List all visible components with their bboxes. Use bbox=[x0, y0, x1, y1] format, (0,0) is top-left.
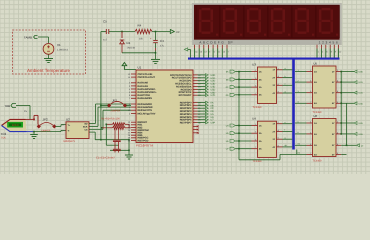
svg-text:d: d bbox=[285, 90, 286, 93]
display segment pins bbox=[195, 45, 230, 58]
svg-text:V1: V1 bbox=[57, 43, 61, 47]
svg-text:MCLR/Vpp/THV: MCLR/Vpp/THV bbox=[138, 112, 156, 115]
7-segment display frame bbox=[192, 3, 342, 45]
U6 output terminals bbox=[341, 122, 363, 136]
svg-text:C4: C4 bbox=[160, 39, 164, 43]
wire TC2 minus to U2 bbox=[34, 131, 61, 133]
microcontroller U1 PIC16F877A bbox=[136, 70, 193, 143]
wire V1 to ground bbox=[48, 55, 50, 59]
svg-text:C5: C5 bbox=[103, 20, 107, 24]
wire VDD to PIC bbox=[123, 69, 125, 71]
svg-text:1A: 1A bbox=[259, 71, 262, 74]
diode D1 bbox=[121, 32, 123, 39]
wire vertical net VP left bbox=[100, 32, 102, 140]
junction rail1 long vertical bbox=[100, 139, 102, 141]
IC U4 bbox=[258, 121, 277, 157]
bus horizontal bbox=[188, 58, 340, 60]
U3 input terminals bbox=[226, 70, 252, 97]
svg-text:RB7/PGD: RB7/PGD bbox=[138, 139, 149, 142]
svg-text:U7D: U7D bbox=[211, 94, 216, 97]
svg-text:SO: SO bbox=[84, 123, 87, 126]
svg-text:2A: 2A bbox=[259, 132, 262, 135]
U1 right pins RC bbox=[180, 101, 202, 124]
wire U2 GND to filter rail bbox=[89, 131, 95, 133]
thermocouple probe TC2 bbox=[2, 119, 27, 131]
U4 input terminals bbox=[226, 124, 252, 151]
svg-text:100.0: 100.0 bbox=[12, 124, 19, 127]
svg-text:U4D: U4D bbox=[359, 122, 364, 125]
svg-text:OSC2/CLKOUT: OSC2/CLKOUT bbox=[138, 76, 156, 79]
display digits bbox=[196, 6, 339, 38]
wire filter rail 2 bbox=[106, 144, 118, 146]
junction ground rail bbox=[155, 52, 157, 54]
wire resistor rows link bbox=[128, 124, 130, 128]
terminals RC nets bbox=[198, 101, 216, 125]
svg-text:3A: 3A bbox=[259, 86, 262, 89]
wire link under U4 bbox=[239, 159, 280, 161]
svg-text:4u7: 4u7 bbox=[103, 39, 108, 42]
vertical wire right B bbox=[346, 103, 348, 145]
wire JP1 right to PIC bbox=[127, 105, 132, 107]
svg-text:R1+R2+R3=100: R1+R2+R3=100 bbox=[101, 118, 120, 121]
IC U6 bbox=[313, 119, 337, 157]
svg-text:g: g bbox=[285, 137, 286, 140]
wire U6 pin4 right bbox=[341, 153, 346, 155]
wire VP input node bbox=[101, 31, 106, 33]
svg-text:RD7/PSP7: RD7/PSP7 bbox=[180, 122, 192, 125]
ground TC2 bbox=[33, 132, 35, 135]
display digit pins bbox=[317, 45, 342, 58]
resistor R4 bbox=[135, 29, 152, 33]
svg-text:123456: 123456 bbox=[319, 40, 340, 44]
svg-text:4A: 4A bbox=[259, 94, 262, 97]
svg-text:2A: 2A bbox=[314, 81, 317, 84]
svg-text:T-: T- bbox=[68, 130, 70, 133]
svg-text:CS: CS bbox=[84, 128, 88, 131]
junction R1 vertical B bbox=[106, 124, 108, 126]
svg-text:1N4148: 1N4148 bbox=[127, 47, 136, 50]
junction filter ground 2 bbox=[128, 150, 130, 152]
svg-text:U0P: U0P bbox=[211, 122, 216, 125]
ground below V1 bbox=[44, 59, 53, 63]
junction node D1 top bbox=[121, 31, 123, 33]
svg-text:SCK: SCK bbox=[83, 126, 88, 129]
svg-text:C1=C2=C3=4n7: C1=C2=C3=4n7 bbox=[96, 156, 115, 159]
svg-text:TC4469: TC4469 bbox=[253, 106, 263, 109]
wire vertical B bbox=[105, 124, 107, 145]
svg-text:VP: VP bbox=[176, 31, 180, 34]
U5 output terminals bbox=[341, 70, 363, 105]
svg-text:47u: 47u bbox=[160, 45, 165, 48]
vertical wire right of U5 bbox=[340, 72, 342, 134]
svg-text:THB: THB bbox=[4, 104, 10, 108]
svg-text:ABCDEFG: ABCDEFG bbox=[199, 40, 225, 44]
wire U6 pin3 terminal bbox=[341, 144, 356, 146]
svg-text:TC4469: TC4469 bbox=[313, 159, 323, 162]
wire R4 to VP terminal bbox=[152, 31, 170, 33]
display pin name strip bbox=[193, 40, 340, 45]
bus vertical bbox=[292, 58, 295, 150]
svg-text:4A: 4A bbox=[314, 153, 317, 156]
svg-text:1A: 1A bbox=[314, 122, 317, 125]
wire filter rail 1 bbox=[95, 139, 129, 141]
wire JP2 left bbox=[37, 115, 39, 124]
capacitor C4 bbox=[155, 32, 157, 41]
svg-text:U6: U6 bbox=[314, 114, 318, 118]
IC U5 bbox=[313, 66, 337, 108]
resistor network R1 R2 R3 row 1 bbox=[106, 123, 112, 125]
svg-text:TCK: TCK bbox=[1, 137, 6, 140]
svg-text:JUMPER: JUMPER bbox=[41, 129, 51, 132]
svg-text:2A: 2A bbox=[259, 78, 262, 81]
junction R2 long vertical bbox=[101, 127, 103, 129]
svg-text:1A: 1A bbox=[314, 70, 317, 73]
ground power rail bbox=[151, 59, 160, 63]
svg-text:0C: 0C bbox=[226, 86, 229, 89]
svg-text:R4: R4 bbox=[138, 24, 142, 28]
svg-text:TAMB: TAMB bbox=[24, 36, 32, 40]
svg-text:U5: U5 bbox=[314, 61, 318, 65]
wire U2 CS bbox=[89, 128, 103, 130]
svg-text:TC2: TC2 bbox=[1, 132, 7, 136]
svg-text:Ambient Temperature: Ambient Temperature bbox=[27, 68, 70, 73]
terminal display left bbox=[184, 48, 188, 51]
svg-text:U2: U2 bbox=[66, 118, 70, 122]
terminal TAMB bbox=[34, 36, 38, 39]
ambient temperature enclosure (dashed box) bbox=[13, 30, 86, 74]
svg-text:U2D: U2D bbox=[359, 92, 364, 95]
capacitor C1 bbox=[114, 128, 116, 140]
capacitor C5 bbox=[106, 29, 109, 34]
terminal VP bbox=[170, 30, 174, 34]
svg-text:3A: 3A bbox=[314, 144, 317, 147]
U1 left pins bbox=[128, 73, 157, 142]
svg-text:U4: U4 bbox=[252, 117, 256, 121]
junction TC2 minus bbox=[33, 131, 35, 133]
junction filter ground 1 bbox=[128, 139, 130, 141]
U6 bus entries bbox=[295, 120, 307, 145]
wire C5 to R4 bbox=[109, 31, 135, 33]
wire filter rail 3 bbox=[110, 149, 129, 151]
svg-text:PIC16F877A: PIC16F877A bbox=[136, 143, 153, 147]
U5 bus entries bbox=[295, 69, 307, 104]
svg-text:U1: U1 bbox=[138, 66, 142, 70]
svg-text:3A: 3A bbox=[259, 140, 262, 143]
IC U2 MAX6675 bbox=[66, 122, 89, 139]
svg-text:2A: 2A bbox=[314, 133, 317, 136]
junction node C4 top bbox=[155, 31, 157, 33]
svg-text:0D: 0D bbox=[226, 94, 229, 97]
svg-text:JUMPER: JUMPER bbox=[111, 110, 121, 113]
svg-text:3A: 3A bbox=[314, 92, 317, 95]
svg-text:4A: 4A bbox=[259, 148, 262, 151]
U3 bus entries bbox=[283, 67, 293, 93]
svg-text:c: c bbox=[285, 83, 286, 86]
wire U6 pin4 under bus bbox=[280, 153, 307, 155]
wire filter to ground bbox=[128, 140, 130, 155]
svg-text:DP: DP bbox=[228, 40, 233, 44]
terminal THB bbox=[11, 104, 16, 108]
wire U2 SO bbox=[89, 123, 96, 125]
svg-text:MAX6675: MAX6675 bbox=[64, 140, 76, 143]
svg-text:U3D: U3D bbox=[359, 102, 364, 105]
IC U3 bbox=[258, 67, 277, 104]
svg-text:JP2: JP2 bbox=[43, 118, 49, 122]
voltage source V1 bbox=[43, 44, 54, 55]
wire bottom rail D1 C4 bbox=[122, 52, 156, 54]
wire THB to sensor bbox=[16, 105, 30, 107]
wire bus end stub bbox=[296, 150, 298, 155]
svg-text:U3: U3 bbox=[252, 62, 256, 66]
grid background bbox=[0, 0, 370, 174]
wire U2 SCK bbox=[89, 125, 98, 127]
svg-text:U5D: U5D bbox=[359, 133, 364, 136]
wire JP2 right to U2 bbox=[56, 125, 62, 127]
ground RC filter bbox=[125, 155, 133, 159]
junction JP1 net bbox=[100, 105, 102, 107]
svg-text:RA5/AN4/SS: RA5/AN4/SS bbox=[138, 97, 153, 100]
svg-text:RC7/RX/DT: RC7/RX/DT bbox=[179, 94, 192, 97]
svg-text:1A: 1A bbox=[259, 124, 262, 127]
wire TC2 plus lead bbox=[26, 118, 35, 120]
svg-text:4A: 4A bbox=[314, 102, 317, 105]
svg-text:U1D: U1D bbox=[359, 81, 364, 84]
wire JP1 left bbox=[101, 105, 108, 107]
U1 right pins RB bbox=[170, 74, 201, 97]
resistor network row 2 bbox=[102, 127, 113, 129]
svg-text:1.00003-3: 1.00003-3 bbox=[57, 49, 68, 52]
wire rail to ground bbox=[155, 53, 157, 60]
svg-text:TC4469: TC4469 bbox=[253, 160, 263, 163]
capacitor C2 bbox=[118, 128, 120, 140]
svg-text:U0D: U0D bbox=[359, 71, 364, 74]
svg-text:D1: D1 bbox=[127, 41, 131, 45]
wire TAMB to V1 bbox=[38, 36, 49, 38]
terminals RB nets bbox=[198, 74, 216, 98]
U1 right pins unconnected stubs bbox=[193, 125, 199, 133]
wire TC2 minus lead bbox=[27, 131, 35, 133]
U4 bus entries bbox=[283, 121, 293, 147]
power terminal VDD bbox=[122, 63, 127, 70]
vertical link wire U3 U4 inputs bbox=[238, 72, 240, 160]
